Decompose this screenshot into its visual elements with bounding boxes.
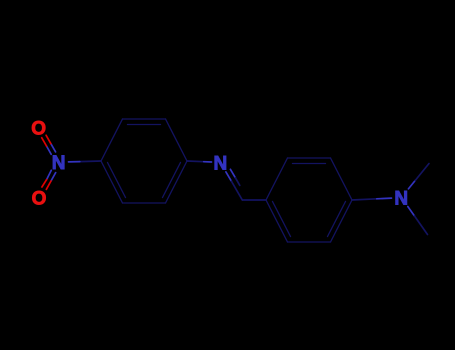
wire C4 to imine N : nitrogen half bbox=[204, 161, 212, 163]
wire C2'-C3' top edge bbox=[288, 157, 331, 159]
wire C1 to nitro N : nitrogen half bbox=[69, 161, 80, 163]
double bond inner line top bbox=[128, 124, 161, 126]
wire N to upper methyl : carbon half bbox=[415, 164, 429, 181]
N=CH double bond main line: C half bbox=[231, 181, 242, 200]
wire N to upper methyl : nitrogen half bbox=[408, 181, 415, 189]
wire C3'-C4' upper-right edge bbox=[331, 158, 353, 200]
nitro group bonds bbox=[42, 135, 101, 189]
N=O top double bond line b: O half bbox=[42, 138, 47, 146]
imine linkage bbox=[187, 161, 266, 200]
wire C1-C2 upper-left edge bbox=[101, 119, 123, 161]
wire C2-C3 top edge bbox=[123, 118, 166, 120]
svg-text:N: N bbox=[394, 188, 408, 209]
N=CH double bond main line: N half bbox=[226, 172, 232, 181]
N=O bottom double bond line a: O half bbox=[46, 181, 51, 189]
double bond inner line lower-left bbox=[108, 163, 126, 198]
N=O top double bond line a: N half bbox=[51, 144, 56, 152]
wire C4'-C5' lower-right edge bbox=[331, 200, 353, 242]
left benzene ring bbox=[101, 119, 187, 203]
N=O top double bond line a: O half bbox=[46, 135, 51, 143]
double bond inner line lower-left bbox=[273, 202, 291, 237]
wire C4-C5 lower-right edge bbox=[166, 161, 188, 203]
double bond inner line top bbox=[293, 163, 326, 165]
N=CH double bond second line: C half bbox=[235, 178, 239, 186]
right benzene ring bbox=[266, 158, 352, 242]
svg-text:N: N bbox=[214, 153, 228, 174]
dimethylamino group bonds bbox=[352, 164, 429, 235]
double bond inner line lower-right bbox=[163, 163, 181, 198]
wire C1 to nitro N : carbon half bbox=[80, 160, 101, 163]
N=CH double bond second line: N half bbox=[230, 169, 235, 178]
wire C4' to N : carbon half bbox=[352, 199, 377, 200]
svg-text:N: N bbox=[52, 153, 66, 174]
N=O top double bond line b: N half bbox=[47, 146, 52, 154]
N=O bottom double bond line b: N half bbox=[47, 170, 52, 179]
N=O bottom double bond line b: O half bbox=[42, 180, 47, 187]
wire C6-C1 lower-left edge bbox=[101, 161, 123, 203]
wire C4' to N : nitrogen half bbox=[377, 197, 392, 200]
double bond inner line lower-right bbox=[328, 202, 346, 237]
N=O bottom double bond line a: N half bbox=[51, 173, 56, 181]
wire CH to right ring C1' bbox=[242, 199, 266, 201]
wire C3-C4 upper-right edge bbox=[166, 119, 188, 161]
svg-text:O: O bbox=[31, 118, 46, 139]
wire C6'-C1' lower-left edge bbox=[266, 200, 288, 242]
wire C4 to imine N : carbon half bbox=[187, 160, 204, 163]
wire N to lower methyl : carbon half bbox=[415, 216, 428, 235]
svg-text:O: O bbox=[32, 188, 47, 209]
wire C1'-C2' upper-left edge bbox=[266, 158, 288, 200]
wire C5'-C6' bottom edge bbox=[288, 241, 331, 243]
wire C5-C6 bottom edge bbox=[123, 202, 166, 204]
wire N to lower methyl : nitrogen half bbox=[408, 207, 415, 217]
